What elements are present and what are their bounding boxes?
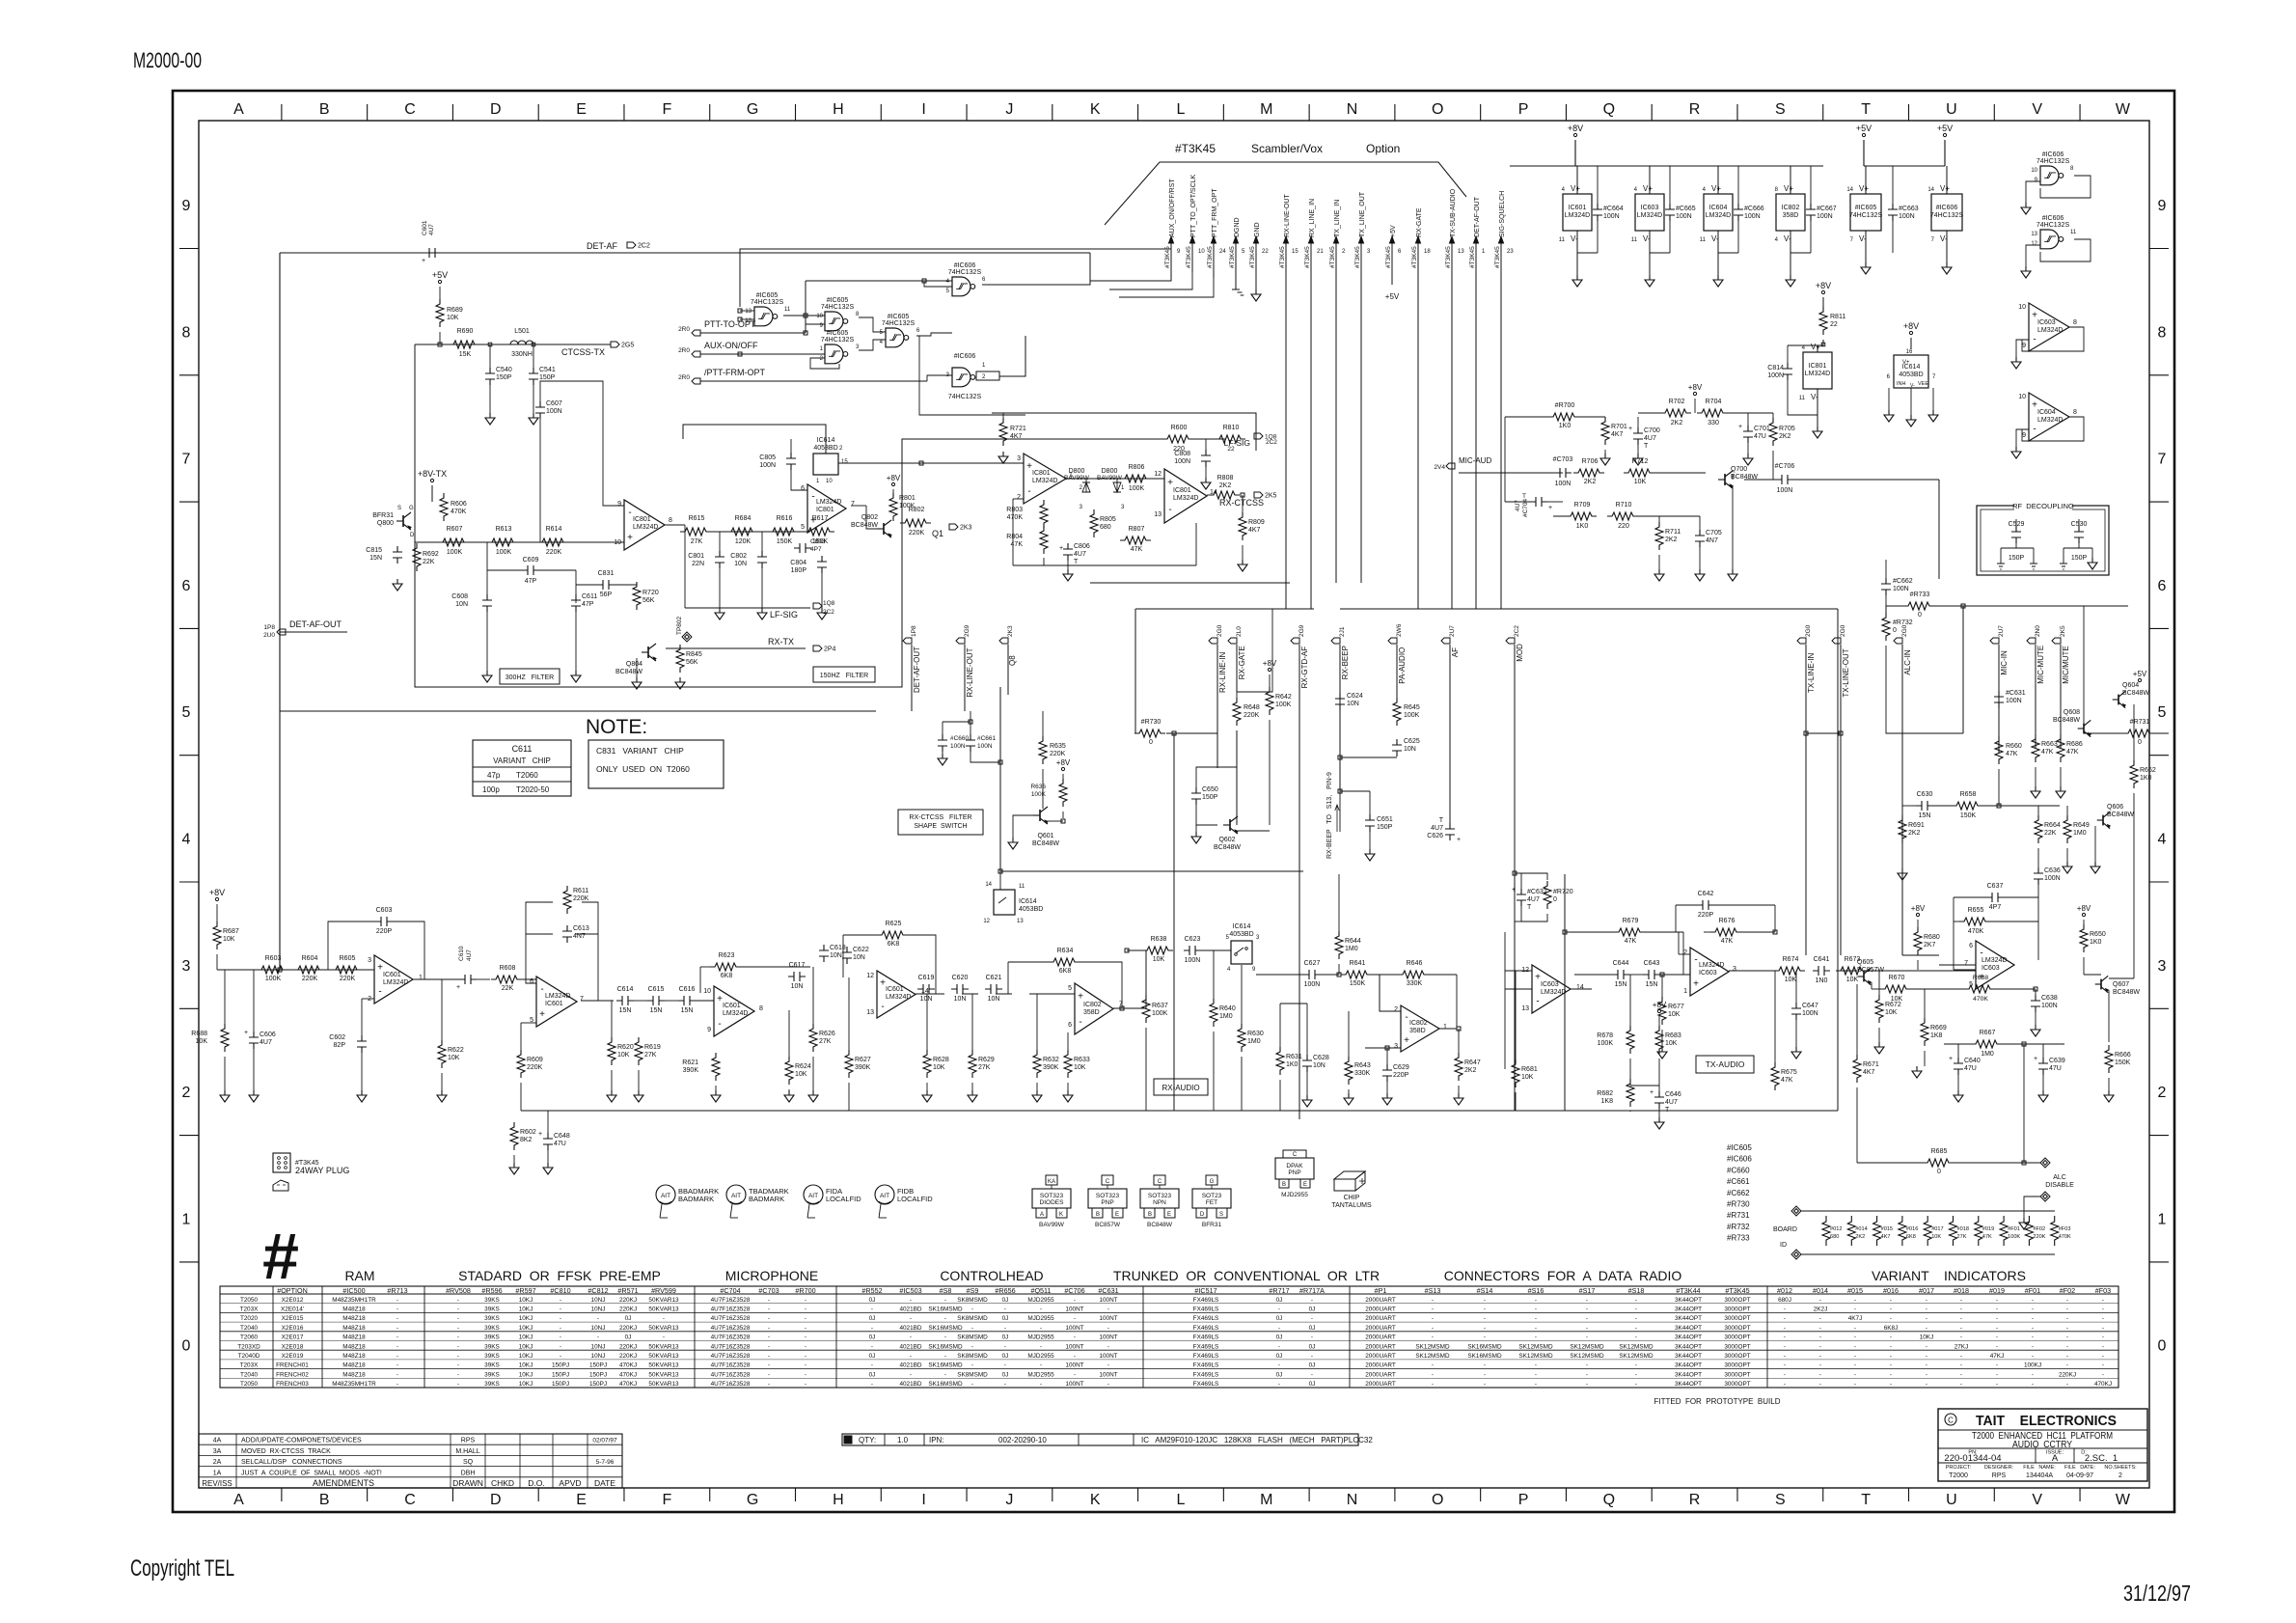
svg-text:C: C <box>1106 1179 1110 1185</box>
svg-text:+: + <box>1949 1056 1953 1062</box>
svg-text:47K: 47K <box>1982 1234 1992 1240</box>
resistor R646 <box>1398 971 1429 978</box>
capacitor C610 <box>459 975 477 984</box>
svg-text:-: - <box>1926 1362 1927 1369</box>
svg-text:+5V: +5V <box>1856 124 1872 133</box>
svg-text:100NT: 100NT <box>1099 1334 1117 1341</box>
svg-text:10NJ: 10NJ <box>591 1306 606 1312</box>
svg-text:LM324D: LM324D <box>1541 989 1566 996</box>
ground IC604 spare <box>2011 447 2021 458</box>
svg-text:3: 3 <box>2158 958 2167 975</box>
svg-text:RX-GTD-AF: RX-GTD-AF <box>1300 646 1309 689</box>
svg-text:47K: 47K <box>1781 1077 1793 1084</box>
svg-text:#C663: #C663 <box>1899 206 1919 212</box>
svg-text:#017: #017 <box>1931 1226 1943 1232</box>
svg-text:SK12MSMD: SK12MSMD <box>1619 1353 1654 1360</box>
svg-text:#IC605: #IC605 <box>1727 1143 1752 1152</box>
svg-text:RAM: RAM <box>344 1268 374 1283</box>
svg-text:680: 680 <box>1830 1234 1839 1240</box>
svg-text:C648: C648 <box>554 1133 570 1140</box>
svg-text:50KVAR13: 50KVAR13 <box>648 1371 679 1378</box>
svg-text:M48Z18: M48Z18 <box>342 1315 366 1322</box>
svg-text:-: - <box>2102 1362 2104 1369</box>
svg-text:4U7F16Z3528: 4U7F16Z3528 <box>711 1353 751 1360</box>
svg-text:-: - <box>1960 1353 1962 1360</box>
connector 24WAY PLUG <box>273 1153 290 1172</box>
svg-text:2G9: 2G9 <box>1298 624 1305 637</box>
svg-text:0: 0 <box>1893 627 1897 634</box>
svg-text:#F02: #F02 <box>2060 1286 2075 1295</box>
svg-text:#018: #018 <box>1957 1226 1969 1232</box>
svg-text:220KJ: 220KJ <box>619 1353 637 1360</box>
svg-text:-: - <box>2102 1334 2104 1341</box>
svg-text:E: E <box>1115 1212 1119 1218</box>
svg-text:+8V: +8V <box>887 474 901 482</box>
svg-text:-: - <box>768 1315 770 1322</box>
capacitor C701 <box>1743 426 1753 443</box>
svg-text:RPS: RPS <box>1992 1472 2007 1479</box>
svg-text:13: 13 <box>2031 232 2037 237</box>
svg-text:100NT: 100NT <box>1099 1297 1117 1304</box>
svg-text:M2000-00: M2000-00 <box>133 48 202 72</box>
svg-text:47K: 47K <box>2066 749 2079 756</box>
svg-text:BFR31: BFR31 <box>1202 1222 1222 1228</box>
svg-text:MJD2955: MJD2955 <box>1027 1353 1054 1360</box>
svg-text:-: - <box>2032 1315 2034 1322</box>
svg-text:7: 7 <box>851 501 855 508</box>
svg-text:BAV99W: BAV99W <box>1039 1222 1065 1228</box>
capacitor #C663 <box>1888 204 1898 221</box>
svg-text:E: E <box>576 1492 587 1508</box>
svg-text:50KVAR13: 50KVAR13 <box>648 1306 679 1312</box>
svg-text:R685: R685 <box>1931 1148 1948 1155</box>
svg-text:V+: V+ <box>1811 343 1820 351</box>
svg-text:3K44OPT: 3K44OPT <box>1675 1297 1702 1304</box>
svg-text:RX-TX: RX-TX <box>768 637 794 646</box>
svg-text:RX-LINE-OUT: RX-LINE-OUT <box>1284 194 1291 237</box>
resistor R705 <box>1769 418 1777 446</box>
svg-text:13: 13 <box>745 309 752 315</box>
svg-text:-: - <box>1586 1325 1588 1332</box>
svg-text:-: - <box>1586 1381 1588 1388</box>
svg-text:DPAK: DPAK <box>1286 1163 1303 1169</box>
svg-text:7: 7 <box>580 996 584 1003</box>
svg-text:#C703: #C703 <box>758 1286 779 1295</box>
svg-text:U: U <box>1946 1492 1957 1508</box>
ground R691 <box>1898 868 1907 880</box>
svg-text:47U: 47U <box>1964 1065 1977 1072</box>
svg-text:T: T <box>1439 817 1444 824</box>
svg-text:#R552: #R552 <box>861 1286 882 1295</box>
svg-text:180P: 180P <box>791 567 807 574</box>
svg-text:#C810: #C810 <box>550 1286 570 1295</box>
capacitor C617 <box>788 972 806 981</box>
svg-text:Q700: Q700 <box>1731 466 1747 473</box>
ground ALC <box>2019 1218 2029 1229</box>
svg-text:SOT323: SOT323 <box>1040 1193 1064 1199</box>
svg-text:-: - <box>2032 1334 2034 1341</box>
ground spare b <box>2021 266 2031 278</box>
svg-text:C: C <box>1158 1179 1162 1185</box>
svg-text:+: + <box>810 516 816 527</box>
svg-text:1: 1 <box>1443 1024 1447 1031</box>
qty ipn strip <box>842 1434 1358 1445</box>
svg-text:47K: 47K <box>1721 938 1734 945</box>
resistor R608 <box>491 976 522 983</box>
svg-text:1M0: 1M0 <box>1219 1013 1233 1020</box>
capacitor C639 <box>2038 1058 2048 1075</box>
capacitor C650 <box>1191 787 1201 805</box>
svg-text:3000OPT: 3000OPT <box>1724 1381 1750 1388</box>
svg-text:-: - <box>1784 1306 1786 1312</box>
svg-text:RX-AUDIO: RX-AUDIO <box>1162 1084 1199 1092</box>
wire mic-aud <box>1459 472 1563 474</box>
svg-text:-: - <box>1536 997 1539 1007</box>
svg-text:#IC517: #IC517 <box>1194 1286 1216 1295</box>
label TX-AUDIO <box>1696 1056 1754 1073</box>
resistor R629 <box>969 1050 976 1078</box>
ground R666 <box>2104 1090 2114 1102</box>
svg-text:3K44OPT: 3K44OPT <box>1675 1343 1702 1350</box>
svg-text:SK8MSMD: SK8MSMD <box>957 1353 988 1360</box>
svg-text:10N: 10N <box>920 996 933 1003</box>
svg-text:TX-SUB-AUDIO: TX-SUB-AUDIO <box>1450 188 1457 237</box>
svg-text:C617: C617 <box>789 962 806 969</box>
resistor R623 <box>710 963 741 971</box>
capacitor #C667 <box>1806 204 1816 221</box>
svg-text:-: - <box>1535 1381 1537 1388</box>
svg-text:MJD2955: MJD2955 <box>1027 1371 1054 1378</box>
svg-text:100N: 100N <box>546 408 562 415</box>
svg-text:R811: R811 <box>1830 314 1845 320</box>
svg-text:-: - <box>1586 1297 1588 1304</box>
svg-text:74HC132S: 74HC132S <box>751 299 784 306</box>
resistor R622 <box>438 1040 446 1068</box>
svg-text:T: T <box>1644 443 1649 450</box>
svg-text:1: 1 <box>419 975 423 981</box>
svg-text:-: - <box>805 1315 806 1322</box>
svg-text:R644: R644 <box>1345 938 1361 945</box>
svg-text:-: - <box>910 1371 912 1378</box>
svg-text:T2060: T2060 <box>240 1334 259 1341</box>
svg-text:2: 2 <box>2158 1085 2167 1101</box>
svg-text:#R733: #R733 <box>1727 1234 1750 1243</box>
svg-text:VARIANT INDICATORS: VARIANT INDICATORS <box>1872 1268 2026 1283</box>
svg-text:-: - <box>1854 1343 1856 1350</box>
svg-text:3K44OPT: 3K44OPT <box>1675 1334 1702 1341</box>
svg-text:220K: 220K <box>1244 712 1260 719</box>
svg-text:-: - <box>1168 505 1171 515</box>
svg-text:IC801: IC801 <box>1032 470 1051 477</box>
svg-text:X2E019: X2E019 <box>282 1353 304 1360</box>
capacitor #C665 <box>1665 204 1675 221</box>
svg-text:Q607: Q607 <box>2113 981 2129 988</box>
svg-text:150PJ: 150PJ <box>589 1362 607 1369</box>
svg-text:-: - <box>457 1381 459 1388</box>
svg-text:-: - <box>1635 1362 1637 1369</box>
wire IC603 left <box>1504 932 1506 1069</box>
svg-text:R807: R807 <box>1129 526 1145 533</box>
wire option bracket <box>1105 162 1466 225</box>
svg-text:220KJ: 220KJ <box>619 1297 637 1304</box>
svg-text:-: - <box>1432 1315 1434 1322</box>
svg-text:2000UART: 2000UART <box>1365 1297 1396 1304</box>
diode D800a <box>1082 482 1090 492</box>
svg-text:2K7: 2K7 <box>1924 942 1936 949</box>
svg-text:MICROPHONE: MICROPHONE <box>725 1268 818 1283</box>
svg-text:#T3K45: #T3K45 <box>1385 246 1392 268</box>
svg-text:39KS: 39KS <box>484 1353 500 1360</box>
box RF DECOUPLING <box>1977 506 2109 575</box>
svg-text:R676: R676 <box>1719 918 1736 924</box>
svg-text:L501: L501 <box>514 328 530 335</box>
svg-text:C643: C643 <box>1644 960 1660 967</box>
svg-text:150P: 150P <box>1377 824 1393 831</box>
svg-text:1K0: 1K0 <box>1576 523 1589 530</box>
svg-text:-: - <box>1535 1306 1537 1312</box>
svg-text:10K: 10K <box>1668 1011 1681 1018</box>
svg-text:-: - <box>1074 1371 1076 1378</box>
svg-text:R682: R682 <box>1597 1090 1613 1097</box>
svg-text:-: - <box>1027 486 1030 497</box>
svg-text:R701: R701 <box>1611 424 1627 430</box>
svg-text:-: - <box>1784 1343 1786 1350</box>
svg-text:BADMARK: BADMARK <box>749 1195 784 1203</box>
svg-text:R658: R658 <box>1960 791 1977 798</box>
resistor R806 <box>1120 475 1151 482</box>
op-amp IC601 C3 <box>374 955 413 1004</box>
svg-text:-: - <box>1819 1297 1821 1304</box>
svg-text:100NT: 100NT <box>1065 1343 1083 1350</box>
svg-text:+5V: +5V <box>2133 670 2147 678</box>
svg-text:4P7: 4P7 <box>1989 904 2002 911</box>
svg-text:10N: 10N <box>954 996 967 1003</box>
svg-text:-: - <box>2102 1315 2104 1322</box>
svg-text:0J: 0J <box>1276 1297 1283 1304</box>
svg-text:4U7F16Z3528: 4U7F16Z3528 <box>711 1362 751 1369</box>
svg-text:LM324D: LM324D <box>1173 495 1198 502</box>
svg-text:-: - <box>805 1362 806 1369</box>
svg-text:-: - <box>1890 1315 1892 1322</box>
svg-text:4U7F16Z3528: 4U7F16Z3528 <box>711 1381 751 1388</box>
svg-text:PNP: PNP <box>1101 1199 1113 1206</box>
svg-text:0J: 0J <box>625 1334 632 1341</box>
svg-text:C601: C601 <box>422 220 428 235</box>
logic power #IC605 <box>1850 194 1881 231</box>
wire 5V rail <box>1864 165 1945 167</box>
svg-text:C606: C606 <box>260 1032 276 1038</box>
svg-text:C623: C623 <box>1185 936 1201 943</box>
svg-text:D: D <box>410 533 415 538</box>
svg-text:C: C <box>404 1492 416 1508</box>
svg-text:C611: C611 <box>512 744 533 754</box>
svg-text:-: - <box>1854 1353 1856 1360</box>
svg-text:150PJ: 150PJ <box>552 1371 569 1378</box>
wire RX-GATE branch <box>1237 609 1272 692</box>
svg-text:47K: 47K <box>2006 751 2018 757</box>
svg-text:LM324D: LM324D <box>383 979 408 986</box>
svg-text:100K: 100K <box>265 976 282 982</box>
svg-text:-: - <box>871 1306 873 1312</box>
capacitor C530 <box>2074 526 2084 543</box>
svg-text:470K: 470K <box>451 509 467 515</box>
svg-text:-: - <box>1311 1297 1313 1304</box>
ground IC603 <box>1645 275 1654 287</box>
svg-text:-: - <box>1278 1306 1280 1312</box>
svg-text:100N: 100N <box>977 743 993 750</box>
svg-text:-: - <box>768 1381 770 1388</box>
svg-text:+8V: +8V <box>1056 758 1071 767</box>
svg-text:100N: 100N <box>1304 981 1321 988</box>
svg-text:-: - <box>1484 1362 1486 1369</box>
svg-text:R604: R604 <box>302 955 318 962</box>
svg-text:330NH: 330NH <box>511 351 533 358</box>
wire switch caps top <box>943 721 970 723</box>
svg-text:VARIANT CHIP: VARIANT CHIP <box>493 756 551 765</box>
svg-text:LOCALFID: LOCALFID <box>826 1195 861 1203</box>
svg-text:-: - <box>1432 1325 1434 1332</box>
svg-text:#C812: #C812 <box>588 1286 608 1295</box>
svg-text:4U7: 4U7 <box>260 1039 272 1046</box>
svg-text:Q606: Q606 <box>2107 804 2123 811</box>
capacitor C601 <box>424 248 441 258</box>
svg-text:7: 7 <box>2158 452 2167 468</box>
svg-text:C620: C620 <box>952 975 969 981</box>
svg-text:T: T <box>1074 559 1079 565</box>
svg-text:9: 9 <box>617 501 621 508</box>
svg-text:CHKD: CHKD <box>491 1478 514 1488</box>
svg-text:0J: 0J <box>1002 1371 1009 1378</box>
resistor R802 <box>900 519 931 527</box>
svg-text:56K: 56K <box>686 659 698 666</box>
svg-text:GND: GND <box>1254 222 1261 237</box>
svg-text:-: - <box>1484 1381 1486 1388</box>
svg-text:4U7: 4U7 <box>428 224 435 235</box>
svg-text:M48Z18: M48Z18 <box>342 1362 366 1369</box>
svg-text:-: - <box>2066 1353 2068 1360</box>
svg-text:-: - <box>1960 1325 1962 1332</box>
svg-text:-: - <box>1890 1334 1892 1341</box>
svg-text:-: - <box>1040 1381 1042 1388</box>
svg-text:0: 0 <box>1149 739 1153 746</box>
svg-text:100N: 100N <box>1744 213 1761 220</box>
svg-text:680J: 680J <box>1778 1297 1791 1304</box>
svg-text:4N7: 4N7 <box>1706 537 1718 544</box>
svg-text:0: 0 <box>2158 1338 2167 1355</box>
ground C701 <box>1743 454 1753 465</box>
wire IC801 L7 in <box>916 462 1024 464</box>
title block logo TAIT ELECTRONICS <box>1945 1414 1956 1425</box>
power +5V block T <box>1862 133 1865 136</box>
resistor R613 <box>487 538 518 546</box>
svg-text:LM324D: LM324D <box>1982 957 2007 964</box>
svg-text:-: - <box>1926 1306 1927 1312</box>
svg-text:-: - <box>396 1371 398 1378</box>
resistor R606 <box>440 493 448 521</box>
svg-text:11: 11 <box>1019 884 1025 890</box>
svg-text:M48Z35MH1TR: M48Z35MH1TR <box>332 1381 376 1388</box>
capacitor C627 <box>1303 970 1321 979</box>
svg-text:10N: 10N <box>1313 1062 1326 1069</box>
capacitor C609 <box>522 565 539 575</box>
svg-text:-: - <box>1535 1297 1537 1304</box>
svg-text:X2E015: X2E015 <box>282 1315 304 1322</box>
resistor R678 <box>1626 1026 1634 1054</box>
svg-text:TRUNKED OR CONVENTIONAL OR: TRUNKED OR CONVENTIONAL OR LTR <box>1113 1268 1380 1283</box>
svg-text:100K: 100K <box>2008 1234 2020 1240</box>
svg-text:#R717: #R717 <box>1269 1286 1289 1295</box>
op-amp IC601 G7 <box>807 484 846 533</box>
capacitor C619 <box>917 984 935 994</box>
resistor R633 <box>1064 1050 1072 1078</box>
op-amp IC802 K3 <box>1075 983 1113 1034</box>
symbol TBADMARK <box>726 1185 746 1204</box>
svg-text:C619: C619 <box>918 975 935 981</box>
svg-text:5: 5 <box>801 524 805 531</box>
svg-text:#T3K45: #T3K45 <box>1304 246 1311 268</box>
svg-text:S: S <box>397 506 401 511</box>
resistor R663 <box>2032 734 2039 762</box>
resistor #R733 <box>1903 602 1934 610</box>
svg-text:2K2J: 2K2J <box>1814 1306 1828 1312</box>
svg-text:9: 9 <box>182 198 191 214</box>
ground R677 <box>1657 1047 1667 1059</box>
note C831 variant chip <box>588 740 724 788</box>
svg-text:R600: R600 <box>1171 425 1188 431</box>
svg-text:2K2: 2K2 <box>1584 479 1597 485</box>
svg-text:TAIT ELECTRONICS: TAIT ELECTRONICS <box>1976 1414 2117 1429</box>
ground R688 <box>220 1090 230 1102</box>
svg-text:-: - <box>1926 1315 1927 1322</box>
svg-text:IC AM29F010-120JC 128KX8: IC AM29F010-120JC 128KX8 FLASH (MECH PAR… <box>1141 1436 1373 1444</box>
svg-text:50KVAR13: 50KVAR13 <box>648 1325 679 1332</box>
svg-text:#C704: #C704 <box>720 1286 740 1295</box>
svg-text:V+: V+ <box>1784 184 1793 193</box>
svg-text:1: 1 <box>2158 1211 2167 1227</box>
svg-text:C639: C639 <box>2049 1058 2065 1064</box>
svg-text:#S16: #S16 <box>1528 1286 1544 1295</box>
svg-text:0: 0 <box>1937 1169 1941 1175</box>
svg-text:220KJ: 220KJ <box>619 1325 637 1332</box>
svg-text:M: M <box>1260 101 1272 118</box>
svg-text:680: 680 <box>1100 524 1111 531</box>
svg-text:#IC605: #IC605 <box>888 314 910 320</box>
svg-text:DET-AF-OUT: DET-AF-OUT <box>913 646 921 693</box>
svg-text:0: 0 <box>2138 739 2142 746</box>
node Q8 vertical <box>1007 645 1009 695</box>
capacitor #C703 <box>1554 468 1572 478</box>
svg-text:4U7F16Z3528: 4U7F16Z3528 <box>711 1371 751 1378</box>
svg-text:-: - <box>1784 1325 1786 1332</box>
svg-text:A: A <box>1040 1212 1044 1218</box>
svg-text:10K: 10K <box>1931 1234 1941 1240</box>
capacitor C815 <box>393 546 402 564</box>
wire IC802 fb <box>1439 975 1457 1029</box>
wire RX-TX <box>666 647 806 649</box>
ground C651 <box>1365 849 1375 861</box>
svg-text:#IC606: #IC606 <box>2042 151 2064 158</box>
svg-text:C801: C801 <box>688 553 704 560</box>
resistor R808 <box>1209 491 1240 499</box>
svg-text:#019: #019 <box>1989 1286 2005 1295</box>
svg-text:2K2: 2K2 <box>1219 482 1232 489</box>
svg-text:6K8: 6K8 <box>1906 1234 1916 1240</box>
svg-text:-: - <box>881 1002 884 1012</box>
svg-text:330K: 330K <box>1354 1070 1371 1077</box>
svg-text:22K: 22K <box>2044 830 2057 837</box>
ground IC604 <box>1713 275 1723 287</box>
svg-text:100K: 100K <box>1129 485 1145 492</box>
